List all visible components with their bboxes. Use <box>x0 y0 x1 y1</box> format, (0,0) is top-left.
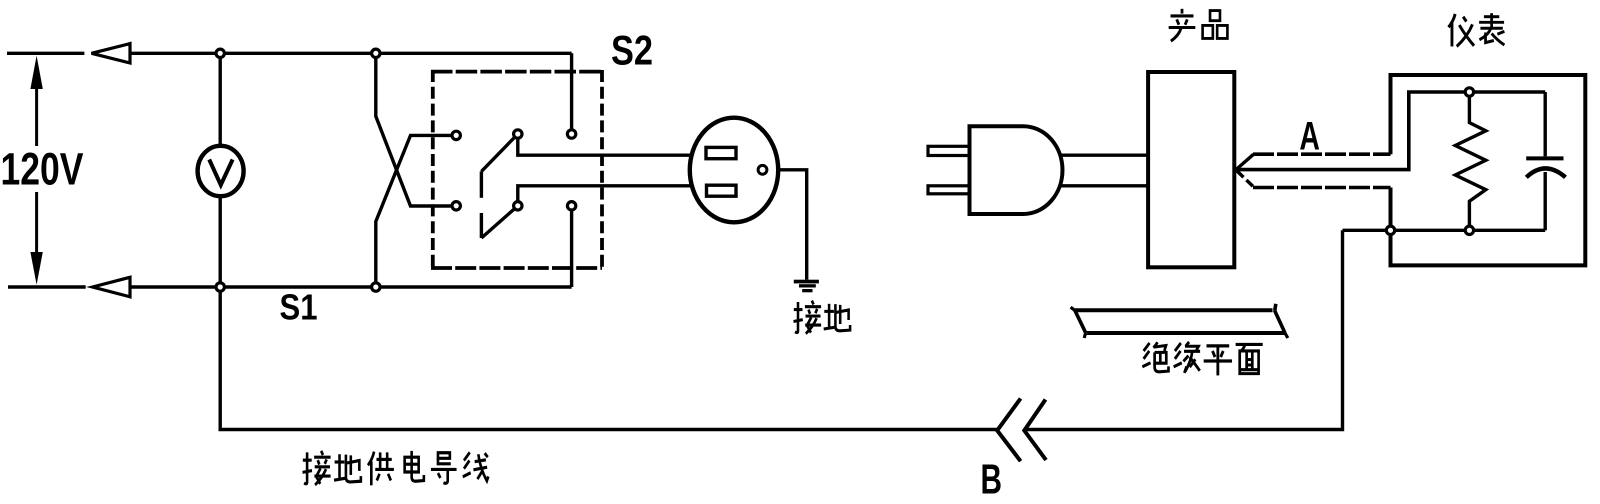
contact S2 pole lower <box>514 202 522 210</box>
wire bottom rail <box>130 285 572 288</box>
wire top rail <box>130 52 572 55</box>
product box <box>1148 72 1234 267</box>
svg-text:S2: S2 <box>611 27 653 74</box>
socket earth hole <box>758 165 767 174</box>
svg-text:S1: S1 <box>280 287 318 328</box>
svg-text:B: B <box>981 456 1003 503</box>
shield dashed lower <box>1253 186 1391 190</box>
label 接地 (ground) <box>794 301 851 334</box>
plug prong upper <box>928 146 970 155</box>
svg-text:A: A <box>1299 114 1320 158</box>
capacitor C top lead <box>1543 92 1546 156</box>
voltmeter V1 <box>198 146 244 196</box>
wire instrument bottom rail <box>1343 229 1546 232</box>
node top-left <box>216 49 224 57</box>
label 绝缘平面 (insulating plane) <box>1142 342 1262 375</box>
arrow A upper barb <box>1236 154 1254 169</box>
contact S2 right upper <box>567 130 575 138</box>
break symbol B chevrons <box>997 399 1046 462</box>
dimension 120V <box>35 89 38 252</box>
wire S2 crossover upper-to-lower <box>376 53 451 206</box>
node top S2 <box>372 49 380 57</box>
contact S2 left upper <box>452 131 460 139</box>
wire S2 pole upper to socket <box>518 134 700 155</box>
socket slot lower <box>707 185 737 196</box>
instrument box with gap <box>1391 75 1586 265</box>
node bottom S2 <box>372 283 380 291</box>
switch S2 lower arm <box>481 206 517 238</box>
label 仪表 (instrument) <box>1448 13 1504 46</box>
capacitor C curved plate <box>1526 168 1565 177</box>
switch S2 dashed enclosure <box>431 70 602 270</box>
capacitor C flat plate <box>1526 156 1563 160</box>
contact S2 right lower <box>567 202 575 210</box>
wire S2 top contact drop <box>570 53 573 134</box>
label 产品 (product) <box>1169 9 1228 41</box>
wire top supply stub <box>7 52 84 55</box>
plug body <box>970 126 1063 214</box>
wire voltmeter branch <box>218 53 221 287</box>
wire line A conductor <box>1236 92 1545 170</box>
dimension arrow up <box>30 56 42 89</box>
socket slot upper <box>706 147 736 158</box>
switch S2 upper arm <box>481 134 517 171</box>
wire plug cord lower <box>1040 184 1148 187</box>
contact S2 left lower <box>452 202 460 210</box>
socket outlet body <box>690 118 778 223</box>
label 接地供电导线 (grounded supply lead) <box>303 451 489 485</box>
resistor R <box>1455 92 1486 230</box>
wire S2 crossover lower-to-upper <box>376 135 451 287</box>
wire bottom supply stub <box>8 285 86 288</box>
arrowhead top supply <box>92 44 131 63</box>
wire socket earth to ground <box>763 170 807 280</box>
wire plug cord upper <box>1040 153 1148 156</box>
shield dashed upper <box>1253 152 1391 156</box>
node instrument case <box>1386 226 1394 234</box>
wire S2 pole lower to socket <box>518 186 700 206</box>
wire ground return left <box>220 287 997 430</box>
svg-text:120V: 120V <box>1 144 84 195</box>
node bottom-left <box>216 283 224 291</box>
switch S2 mechanical link <box>480 171 483 238</box>
wire S2 bottom contact drop <box>570 206 573 287</box>
contact S2 pole upper <box>514 130 522 138</box>
node resistor top <box>1465 88 1473 96</box>
node resistor bottom <box>1465 226 1473 234</box>
dimension arrow down <box>30 252 42 285</box>
capacitor C bottom lead <box>1543 172 1546 230</box>
insulating plane slab <box>1071 304 1288 338</box>
arrow A lower barb dashed <box>1237 171 1254 187</box>
ground symbol <box>794 280 819 293</box>
arrowhead bottom supply <box>93 277 131 297</box>
plug prong lower <box>928 186 970 194</box>
wire ground return right <box>1024 230 1342 429</box>
